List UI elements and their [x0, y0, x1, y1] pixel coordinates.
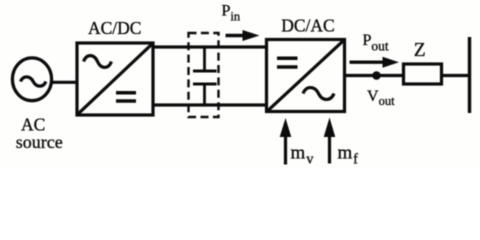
capacitor top lead: [203, 47, 206, 71]
converter AC/DC box: [77, 43, 153, 115]
wire source to AC/DC: [51, 81, 78, 84]
AC/DC equals symbol: [116, 93, 136, 101]
bottom rail wire: [153, 103, 267, 106]
capacitor plates: [193, 71, 217, 84]
arrow m_f: [324, 118, 336, 164]
impedance Z box: [404, 64, 442, 84]
svg-text:Pin: Pin: [222, 3, 241, 24]
svg-text:Z: Z: [414, 40, 426, 61]
AC source sine: [21, 77, 46, 86]
AC/DC sine symbol: [84, 56, 112, 68]
wire Z to bus: [442, 74, 470, 77]
AC/DC diagonal: [78, 44, 151, 113]
arrow m_v: [280, 118, 292, 165]
top rail wire: [153, 45, 267, 48]
node Vout dot: [372, 71, 381, 80]
arrow P_in: [226, 30, 260, 41]
DC/AC diagonal: [268, 41, 343, 111]
grid bus bar: [468, 37, 471, 113]
svg-text:AC/DC: AC/DC: [88, 18, 141, 38]
svg-text:source: source: [16, 132, 63, 152]
svg-text:mf: mf: [338, 143, 359, 168]
capacitor bottom lead: [203, 84, 206, 105]
svg-text:mv: mv: [291, 143, 315, 168]
AC source: [12, 58, 51, 101]
dashed DC-link box: [189, 33, 219, 117]
svg-text:Pout: Pout: [363, 32, 389, 54]
converter DC/AC box: [267, 40, 345, 112]
DC/AC equals symbol: [277, 58, 298, 67]
arrow P_out: [350, 57, 400, 68]
DC/AC sine symbol: [303, 88, 334, 100]
svg-text:DC/AC: DC/AC: [281, 16, 334, 36]
output wire DC/AC to Z: [345, 74, 405, 77]
svg-text:Vout: Vout: [367, 88, 395, 108]
